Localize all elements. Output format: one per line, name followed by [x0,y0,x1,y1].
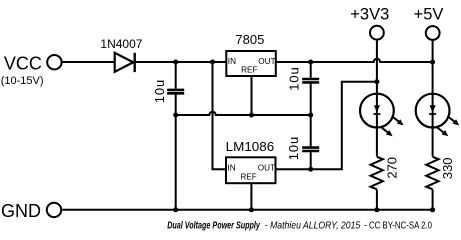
svg-text:- Mathieu ALLORY, 2015: - Mathieu ALLORY, 2015 [265,220,361,231]
capacitor C3 10u [302,115,319,169]
LED D2 inner diode [373,105,380,115]
wire LM1086 REF to ground [250,183,252,210]
svg-text:REF: REF [241,66,257,75]
LED D2 circle [360,94,394,128]
svg-text:10u: 10u [286,136,301,160]
LED D3 inner diode [429,105,436,115]
wire LM1086 OUT to +3V3 [276,82,377,170]
terminal GND [47,203,61,217]
svg-text:+3V3: +3V3 [350,5,389,23]
wire resistor R1 to ground [376,190,378,210]
wire 7805 REF to ground [251,76,253,115]
wire 7805 OUT to +5V with hop over +3V3 [276,59,433,62]
terminal +3V3 [370,26,384,40]
terminal VCC [47,55,61,69]
svg-text:1N4007: 1N4007 [100,37,142,51]
svg-text:IN: IN [228,164,236,173]
svg-text:- CC BY-NC-SA 2.0: - CC BY-NC-SA 2.0 [364,220,432,231]
capacitor C1 10u [167,62,184,210]
wire VCC to diode [63,61,115,63]
wire input branch to LM1086 IN [213,62,227,169]
resistor R2 330 zigzag [426,157,438,190]
LED D3 light arrows [437,116,460,136]
wire mid ground rail with hop [176,112,311,115]
svg-text:LM1086: LM1086 [226,139,275,154]
svg-text:REF: REF [240,172,256,181]
wire +3V3 vertical to LED1 and resistor [376,40,378,156]
wire +5V vertical [432,41,434,94]
svg-text:IN: IN [228,57,236,66]
svg-text:330: 330 [440,157,455,179]
svg-text:270: 270 [384,157,399,179]
regulator U2 LM1086 box [226,157,276,183]
terminal +5V [426,26,440,40]
capacitor C2 10u [302,62,319,115]
svg-text:GND: GND [1,201,41,221]
wire resistor R2 to ground [432,190,434,210]
junction node dots [173,60,435,213]
svg-text:(10-15V): (10-15V) [1,75,44,87]
resistor R1 270 zigzag [371,157,383,190]
svg-text:7805: 7805 [235,32,264,47]
regulator U1 7805 box [226,51,275,76]
diode D1 1N4007 [115,53,135,72]
svg-text:Dual Voltage Power Supply: Dual Voltage Power Supply [167,220,261,231]
wire diode to 7805 IN [135,61,227,63]
wire +5V vertical through LED2 to resistor [432,94,434,157]
wire ground rail [62,209,433,211]
svg-text:OUT: OUT [258,57,275,66]
svg-text:10u: 10u [152,79,167,103]
LED D2 light arrows [381,116,404,136]
svg-text:+5V: +5V [414,5,444,23]
svg-text:10u: 10u [287,66,302,90]
LED D3 circle [416,94,450,128]
svg-text:OUT: OUT [258,164,275,173]
svg-text:VCC: VCC [4,54,42,74]
